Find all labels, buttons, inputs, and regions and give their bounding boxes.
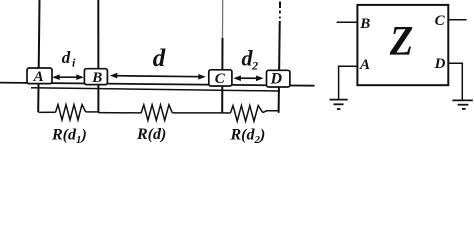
svg-text:R(d): R(d) <box>136 126 166 143</box>
stub lead C <box>448 19 466 21</box>
wire C to resistor R(d2) <box>222 112 230 114</box>
svg-text:2: 2 <box>251 58 258 72</box>
svg-text:Z: Z <box>389 19 413 65</box>
svg-text:A: A <box>33 69 44 85</box>
sheet bottom edge wire <box>31 88 280 91</box>
resistor R(d1) <box>56 105 86 120</box>
svg-text:A: A <box>359 57 370 73</box>
svg-text:d: d <box>153 45 166 72</box>
contact box D <box>267 70 290 87</box>
surface rail wire <box>0 83 315 86</box>
svg-text:B: B <box>359 16 370 32</box>
wire B to resistor R(d) <box>98 112 141 114</box>
svg-text:R(d1): R(d1) <box>51 126 87 146</box>
impedance box Z <box>357 5 448 85</box>
probe wire C (vertical) <box>222 0 224 38</box>
svg-text:C: C <box>215 71 226 87</box>
svg-text:d: d <box>62 48 71 67</box>
probe wire D (vertical) <box>279 2 281 9</box>
contact box A <box>27 68 52 84</box>
probe wire A (vertical) <box>38 0 39 112</box>
wire R(d1) to B <box>86 111 99 113</box>
svg-text:B: B <box>91 70 102 86</box>
svg-text:D: D <box>270 71 283 88</box>
dimension arrow d2 between C and D <box>233 75 263 81</box>
resistor R(d) <box>141 105 172 121</box>
svg-text:D: D <box>434 56 446 72</box>
wire R(d) to C <box>172 112 222 114</box>
resistor R(d2) <box>230 106 262 122</box>
ground (right) <box>452 100 472 109</box>
lead A <box>339 66 358 99</box>
dimension arrow d1 between A and B <box>52 74 84 80</box>
svg-text:R(d2): R(d2) <box>230 126 266 146</box>
wire R(d2) to D <box>263 111 279 113</box>
contact box B <box>84 69 107 85</box>
svg-text:i: i <box>72 56 76 70</box>
probe wire B (vertical) <box>97 0 99 113</box>
lead D <box>448 63 462 100</box>
svg-text:C: C <box>435 13 446 29</box>
dimension arrow d between B and C <box>110 73 206 80</box>
stub lead B <box>337 21 358 23</box>
contact box C <box>209 70 232 86</box>
wire A to resistor R(d1) <box>39 111 56 113</box>
ground (left) <box>330 100 348 109</box>
